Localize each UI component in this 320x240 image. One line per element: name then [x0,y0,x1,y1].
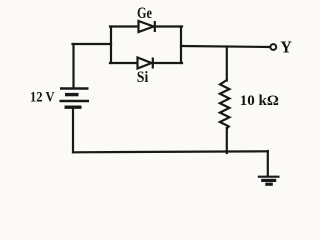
diode D2 Si (bottom) [138,58,153,69]
wire bottom horizontal rail [73,151,268,152]
wire mid-left horizontal [73,43,112,45]
ground [258,177,280,185]
resistor R1 zigzag [220,80,230,129]
wire top rail left segment [110,25,139,27]
svg-text:12 V: 12 V [30,90,55,106]
svg-text:10 kΩ: 10 kΩ [240,93,279,109]
wire ground drop [267,151,269,176]
wire diode-box right edge [180,27,182,64]
svg-text:Ge: Ge [137,3,152,22]
wire resistor top lead [226,47,228,81]
battery B1 12 V [60,89,90,108]
wire bottom rail left segment [110,62,138,64]
output terminal Y circle [270,44,276,50]
wire mid-right horizontal to output [181,46,270,47]
wire top rail right segment [155,25,182,27]
wire battery top vertical [72,44,74,88]
svg-text:Y: Y [280,39,292,56]
diode D1 Ge (top) [139,21,155,32]
wire resistor bottom lead [226,128,228,153]
wire bottom rail right segment [153,62,182,64]
wire diode-box left edge [110,27,112,64]
wire battery bottom vertical [72,107,74,152]
svg-text:Si: Si [137,69,149,86]
